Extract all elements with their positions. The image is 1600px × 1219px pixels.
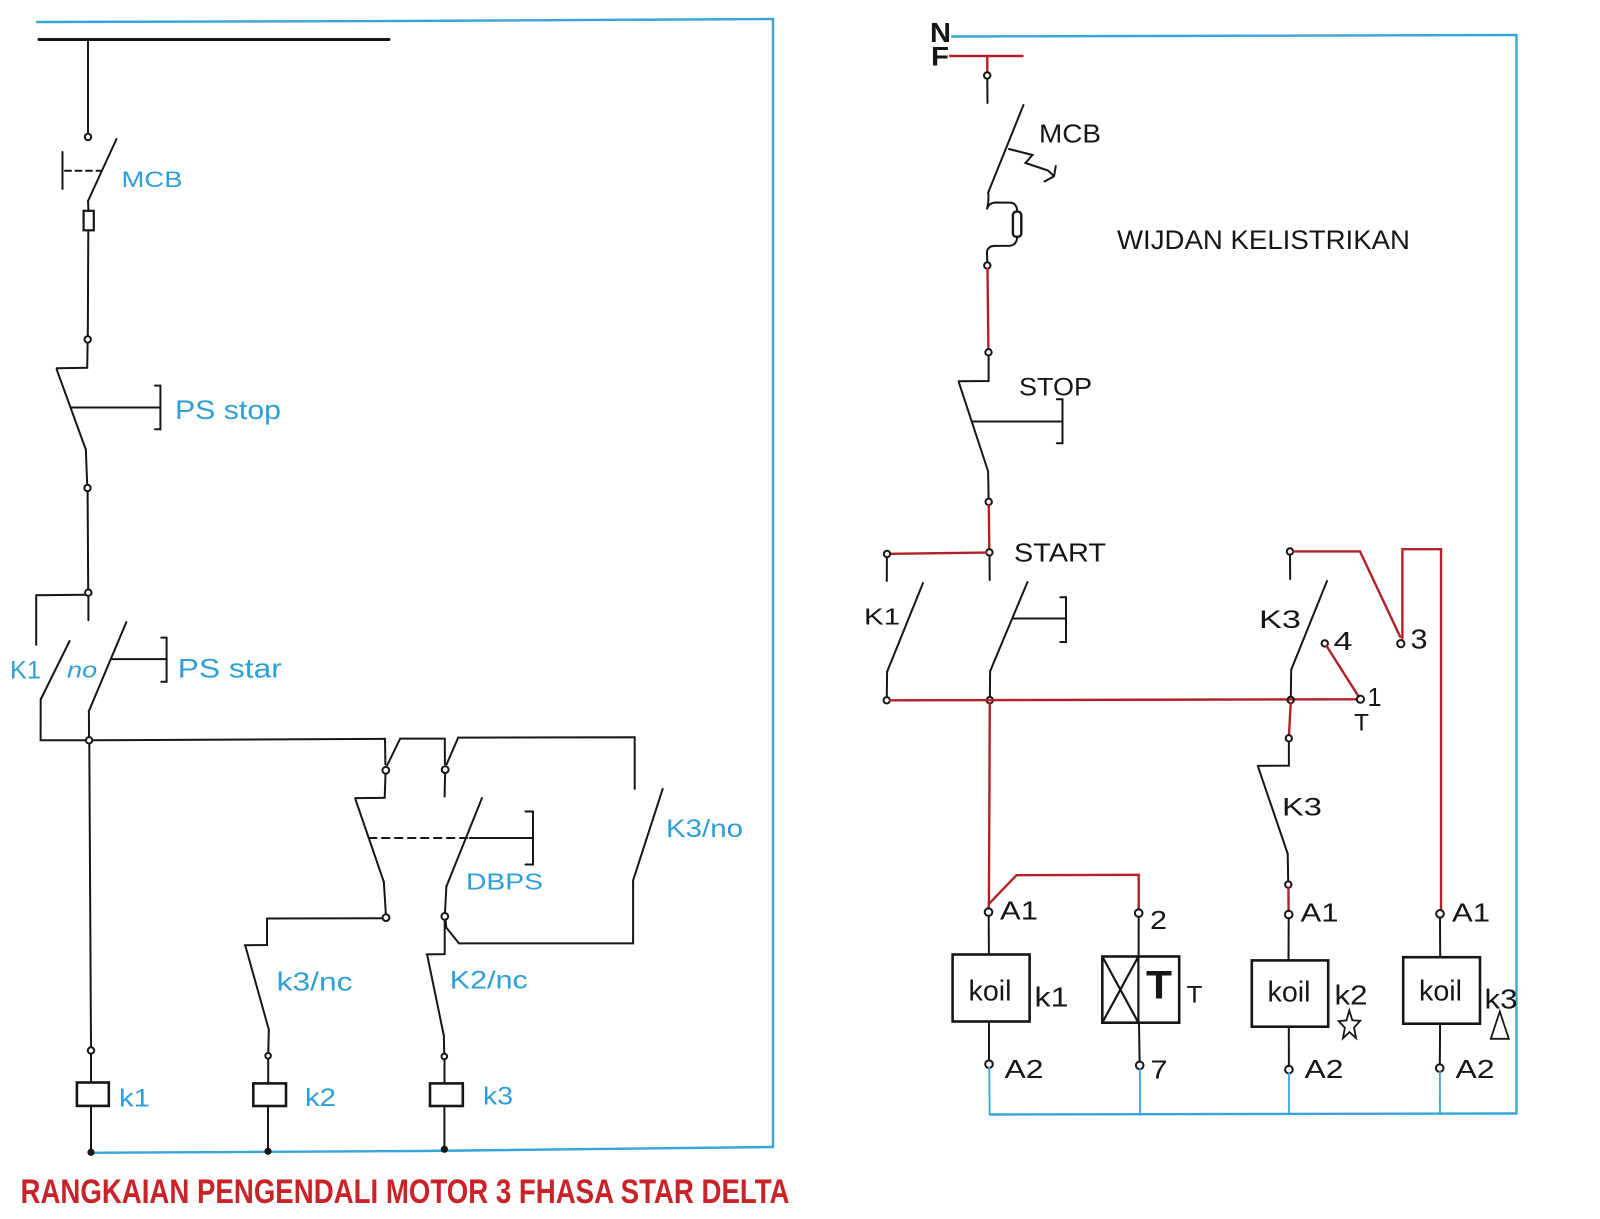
node terminal circle [85, 134, 91, 140]
node 4 circle [1322, 640, 1328, 646]
contact START blade [990, 582, 1027, 671]
svg-text:7: 7 [1151, 1055, 1168, 1085]
svg-text:koil: koil [969, 976, 1012, 1008]
breaker MCB2 blade [988, 105, 1024, 193]
contact K3t blade [1291, 581, 1327, 670]
DBPS button bracket [526, 812, 534, 865]
node terminal circle [1285, 881, 1291, 887]
junction dot [442, 1147, 447, 1152]
wire K1 blade to bus junction [41, 699, 86, 740]
node terminal circle hook1 [382, 767, 389, 774]
node 7 circle [1136, 1062, 1144, 1070]
MCB2 pole element left hook [987, 194, 1017, 212]
node terminal circle [986, 499, 992, 505]
node circle START [986, 549, 992, 555]
coil koil k2 box [1252, 960, 1328, 1026]
wire red bus node down [1289, 703, 1291, 735]
node junction circle [987, 697, 993, 703]
STOP upper stub [959, 356, 989, 382]
svg-text:no: no [67, 658, 97, 683]
coil k1 [77, 1083, 109, 1106]
svg-text:A2: A2 [1005, 1054, 1044, 1084]
coil koil k1 box [953, 955, 1030, 1022]
wire hook2 diagonal to bus [447, 738, 459, 765]
wire blade to node [987, 471, 990, 498]
node 1 circle [1357, 696, 1364, 703]
PS star upper stub [87, 596, 89, 620]
junction node circle [86, 737, 92, 743]
MCB actuator bar [62, 152, 64, 189]
PS stop actuator rod [71, 407, 160, 409]
K3t upper stub [1289, 555, 1291, 579]
svg-text:k2: k2 [1335, 980, 1368, 1011]
svg-text:STOP: STOP [1019, 374, 1092, 402]
busbar L1 [39, 38, 389, 41]
timer X square [1102, 957, 1138, 1023]
node 3 circle [1397, 640, 1404, 647]
wire K3no blade down and across [446, 880, 633, 943]
wire overload down [87, 230, 90, 336]
node A2 circle k3 [1436, 1064, 1444, 1072]
svg-text:k1: k1 [119, 1085, 150, 1113]
svg-text:START: START [1014, 538, 1106, 568]
wire F to terminal red [986, 57, 988, 72]
contact K2/nc blade [427, 956, 443, 1036]
svg-text:T: T [1146, 964, 1172, 1008]
node A1 circle k1 [985, 908, 993, 916]
wire A1 to koil k2 [1288, 918, 1290, 960]
node junction circle [884, 697, 890, 703]
node A1 circle k3 [1436, 910, 1444, 918]
svg-text:A2: A2 [1305, 1054, 1344, 1084]
delta symbol [1491, 1012, 1509, 1039]
node A1 circle k2 [1285, 911, 1293, 919]
left panel blue border box [37, 19, 773, 1147]
svg-text:K1: K1 [864, 604, 900, 630]
DBPS nc blade [356, 800, 384, 882]
PS stop upper stub [57, 343, 88, 368]
DBPS right stub [444, 773, 447, 796]
wire blade to node [445, 886, 446, 913]
wire junction down to coil k1 [89, 744, 91, 1048]
svg-text:RANGKAIAN PENGENDALI MOTOR 3 F: RANGKAIAN PENGENDALI MOTOR 3 FHASA STAR … [21, 1173, 790, 1211]
node terminal circle [441, 913, 448, 920]
wire koil k1 to A2 [988, 1022, 990, 1061]
coil k2 [253, 1083, 286, 1106]
wire main bus from junction to hook1 [92, 739, 385, 765]
STOP actuator rod [973, 421, 1063, 423]
svg-text:2: 2 [1150, 905, 1167, 935]
K3b upper stub [1258, 742, 1289, 766]
node A2 circle k2 [1285, 1066, 1293, 1074]
node 2 circle [1135, 909, 1143, 917]
wire blade to node [989, 671, 991, 697]
wire red below START node [988, 703, 991, 904]
svg-text:K3: K3 [1282, 794, 1322, 822]
node terminal circle [985, 349, 991, 355]
svg-text:T: T [1187, 982, 1203, 1009]
svg-text:A1: A1 [1452, 898, 1490, 928]
wire blade to junction [88, 711, 90, 737]
wire red STOP to START node [988, 505, 991, 549]
contact K3/no blade [633, 789, 663, 881]
coil koil k3 box [1403, 957, 1480, 1024]
DBPS actuator rod [470, 837, 533, 839]
svg-text:MCB: MCB [1039, 119, 1101, 149]
START button bracket [1060, 597, 1066, 642]
wire blade to node [1287, 854, 1290, 882]
svg-text:PS star: PS star [178, 654, 282, 684]
svg-text:T: T [1354, 710, 1369, 737]
wire blade to node [384, 882, 386, 914]
wire bus between hooks [400, 739, 445, 765]
wire N blue line [952, 35, 1517, 37]
wire red terminal to node3 diagonal [1293, 551, 1400, 636]
wire red bus START row [890, 699, 1357, 700]
START actuator rod [1013, 618, 1066, 620]
svg-text:MCB: MCB [122, 167, 183, 192]
node terminal circle [442, 1054, 448, 1060]
wire A1 to koil k3 [1439, 918, 1441, 958]
STOP button bracket [1057, 399, 1063, 443]
svg-text:k2: k2 [305, 1084, 336, 1112]
svg-text:A1: A1 [1301, 898, 1339, 928]
breaker MCB blade [88, 139, 117, 201]
DBPS no blade [447, 798, 482, 886]
wire coil k2 to bottom bus [267, 1106, 269, 1149]
wire red to A1 k1 [987, 904, 990, 909]
node terminal circle [1286, 735, 1292, 741]
wire red node to A1 k2 [1287, 888, 1290, 911]
wire red node4 to node1 [1327, 646, 1359, 696]
svg-text:koil: koil [1419, 976, 1462, 1008]
wire bus to K3no branch [458, 737, 635, 789]
junction dot [265, 1149, 270, 1154]
wire node to coil k2 [267, 1059, 269, 1084]
junction node circle [85, 590, 91, 596]
svg-text:k3: k3 [1485, 984, 1518, 1015]
contact STOP blade [959, 383, 988, 471]
node terminal circle [85, 336, 91, 342]
contact k3/nc blade [246, 946, 269, 1029]
svg-text:DBPS: DBPS [466, 869, 543, 895]
svg-text:A1: A1 [1000, 896, 1038, 926]
node terminal circle [265, 1053, 271, 1059]
wire terminal to MCB [986, 79, 988, 103]
wire red node3 riser to k3 coil feeder [1402, 549, 1441, 910]
wire blade to node [86, 449, 87, 485]
overload element F1 [84, 211, 94, 231]
node terminal circle [984, 72, 990, 78]
wire coil k3 to bottom bus [443, 1106, 445, 1147]
PS stop button bracket [155, 386, 160, 430]
svg-text:1: 1 [1368, 682, 1382, 712]
K1b upper stub [886, 557, 888, 581]
svg-text:A2: A2 [1456, 1054, 1495, 1084]
timer T box [1102, 957, 1179, 1023]
wire blade to bus node [1290, 670, 1292, 697]
node junction circle [1288, 697, 1294, 703]
left panel blue bottom bus [91, 1147, 773, 1153]
wire blue A2 k2 to bus [1288, 1073, 1290, 1114]
contact K1 no blade [41, 641, 70, 699]
wire red branch to timer [989, 875, 1139, 910]
node terminal circle hook2 [442, 766, 449, 773]
wire A1 to koil k1 [988, 916, 990, 955]
PS star actuator rod [112, 658, 166, 660]
svg-text:k3/nc: k3/nc [277, 967, 353, 997]
wire node to k3nc branch [267, 917, 383, 919]
svg-text:3: 3 [1411, 624, 1428, 655]
contact K1b blade [887, 583, 923, 672]
node terminal circle [84, 485, 90, 491]
PS stop blade [57, 370, 86, 450]
node terminal circle [884, 551, 890, 557]
wire blade to node [886, 672, 888, 698]
wire blue node7 to bus [1139, 1069, 1141, 1115]
contact K3b nc blade [1258, 767, 1287, 853]
svg-text:PS stop: PS stop [175, 395, 281, 425]
wire node2 to timer [1138, 917, 1140, 957]
DBPS mechanical link dashed [369, 837, 468, 839]
wire node to coil k3 [444, 1059, 446, 1083]
MCB2 pole element lower lobe [987, 237, 1017, 262]
coil k3 [430, 1083, 463, 1106]
PS star blade [89, 622, 127, 711]
MCB2 pole element rect [1013, 212, 1021, 237]
wire timer to node7 [1138, 1023, 1141, 1062]
svg-text:koil: koil [1268, 977, 1311, 1009]
wire F phase line red [950, 55, 1023, 57]
START upper stub [989, 556, 991, 580]
wire node to junction [87, 492, 90, 590]
junction dot [88, 1150, 93, 1155]
svg-text:K2/nc: K2/nc [450, 967, 528, 995]
star symbol [1339, 1010, 1361, 1038]
K2nc upper stub [427, 920, 445, 955]
node terminal circle [88, 1047, 94, 1053]
wire blade to node [267, 1030, 270, 1054]
wire junction to K1 branch [36, 595, 85, 645]
wire blade to overload element [87, 201, 90, 211]
svg-text:WIJDAN KELISTRIKAN: WIJDAN KELISTRIKAN [1117, 225, 1410, 255]
node terminal circle [383, 914, 390, 921]
MCB mechanical link dashed [65, 170, 101, 172]
wire blue A2 k1 to bus [988, 1068, 990, 1115]
svg-text:4: 4 [1334, 626, 1353, 656]
svg-text:k3: k3 [483, 1083, 513, 1111]
wire hook1 diagonal to bus [387, 739, 400, 766]
svg-text:K3: K3 [1259, 606, 1301, 634]
K3t top terminal circle [1287, 548, 1293, 554]
right panel blue bottom bus [990, 1114, 1517, 1115]
wire coil k1 to bottom bus [90, 1106, 92, 1150]
node A2 circle k1 [985, 1060, 993, 1068]
wire red START node to K1 branch [890, 553, 986, 554]
svg-text:K1: K1 [10, 657, 41, 685]
wire busbar to MCB [87, 40, 89, 133]
wire blue A2 k3 to bus [1439, 1072, 1441, 1114]
PS star button bracket [161, 638, 166, 682]
wire blade to node [443, 1036, 445, 1054]
svg-text:K3/no: K3/no [666, 815, 743, 843]
wire koil k3 to A2 [1439, 1024, 1441, 1065]
k3nc upper stub [245, 919, 267, 946]
MCB2 trip arrowhead [1045, 166, 1056, 182]
wire red terminal to terminal [986, 269, 989, 349]
node terminal circle [984, 262, 990, 268]
svg-text:F: F [931, 42, 949, 72]
DBPS left stub [355, 774, 385, 798]
svg-text:k1: k1 [1035, 982, 1069, 1013]
right panel blue border [1515, 35, 1517, 1114]
wire node to coil [90, 1054, 92, 1083]
wire koil k2 to A2 [1288, 1027, 1290, 1066]
MCB2 trip arrow [1009, 149, 1054, 176]
